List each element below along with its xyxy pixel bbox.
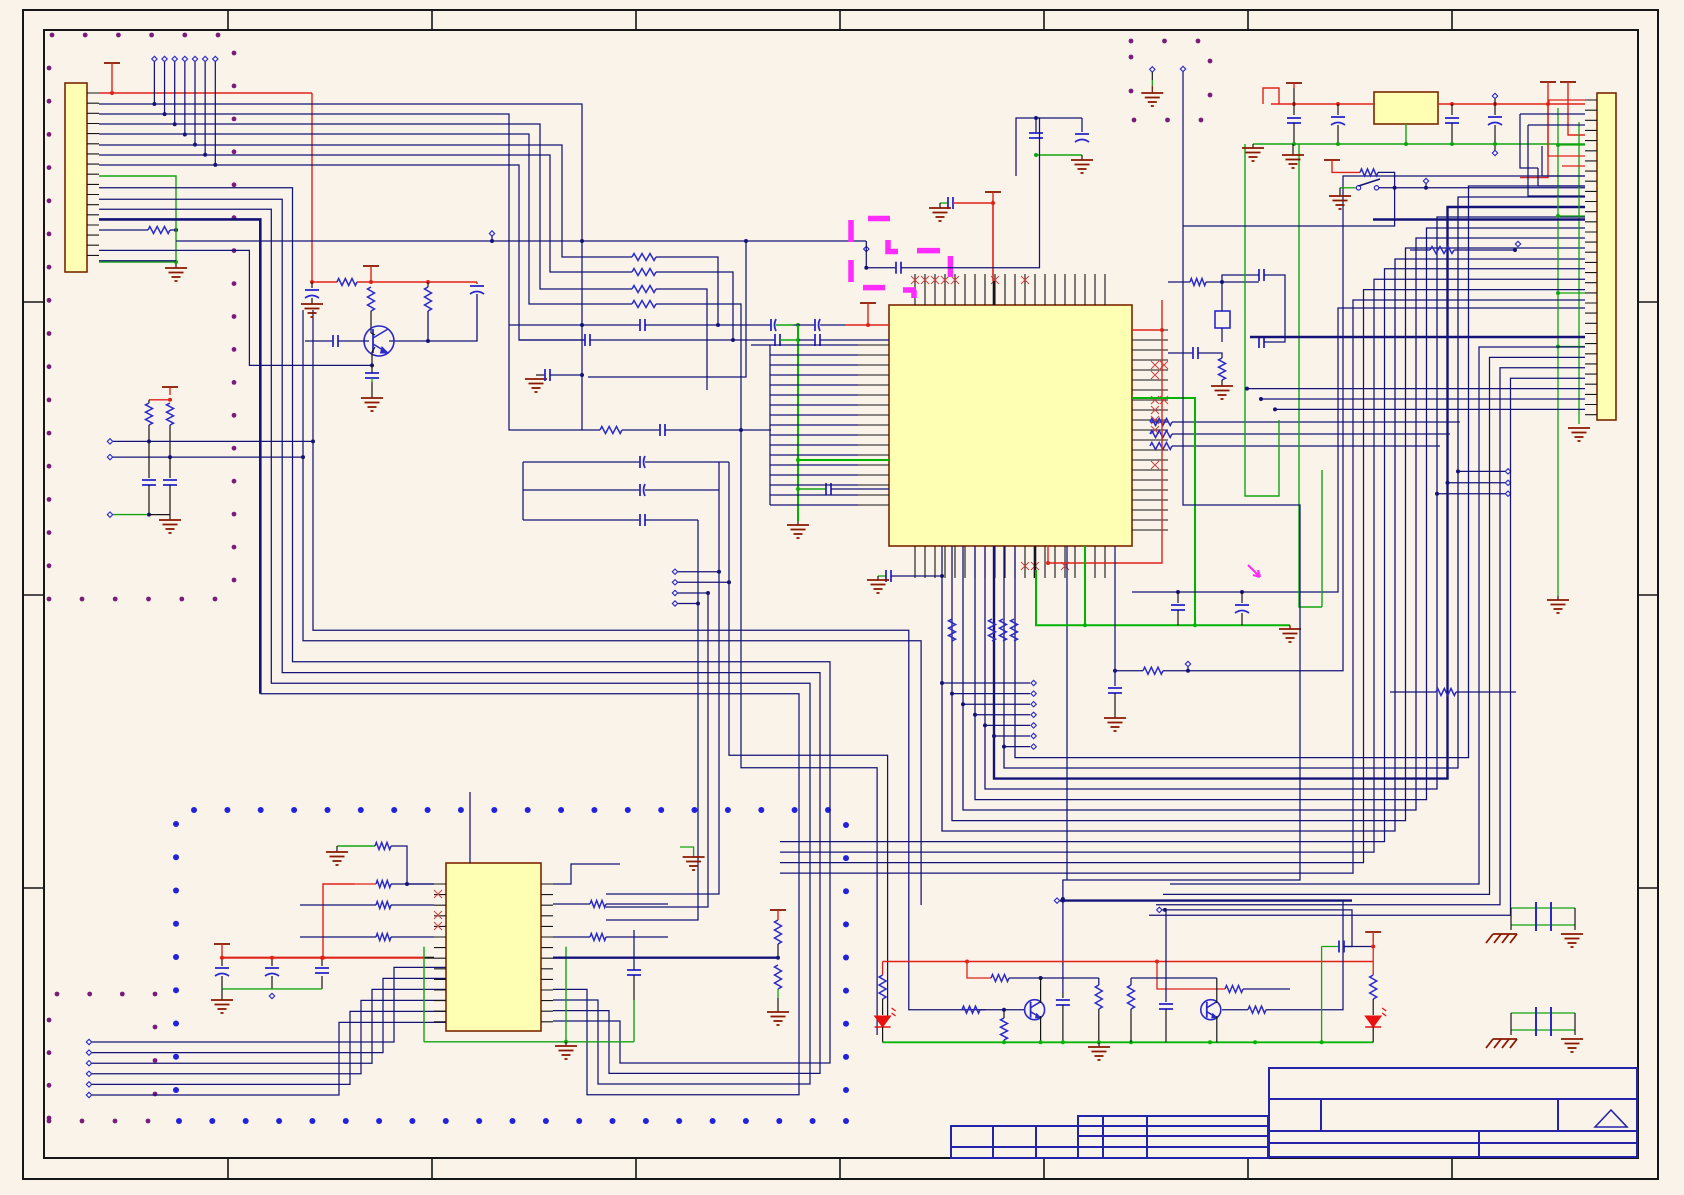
green elbow right of U3 xyxy=(633,1000,635,1042)
red jog below rail xyxy=(1520,104,1548,178)
green stubs into J2 pins xyxy=(1558,144,1585,146)
resistor R2 on J1 pin xyxy=(99,229,148,231)
resistor R6 xyxy=(632,269,656,276)
transistor Q1 xyxy=(364,326,394,356)
cap net row 3 xyxy=(523,461,640,463)
wire J1-15 to Q1 emitter xyxy=(99,250,372,365)
green verticals from power area xyxy=(1245,144,1279,496)
resistor divider pair left xyxy=(162,386,178,388)
LED D2 xyxy=(1365,1016,1381,1027)
LED driver right resistor xyxy=(1372,962,1374,976)
J1 pin stubs xyxy=(87,93,99,255)
switch SW1 net xyxy=(1324,159,1340,161)
wire J1-16 lower net xyxy=(99,260,176,262)
green loop around U1 lower right xyxy=(1036,570,1290,625)
switch ground via green xyxy=(1340,187,1356,189)
red rail to J2 pins xyxy=(1549,103,1585,105)
U1 left pin stubs xyxy=(858,345,889,505)
terminal wire pair with caps xyxy=(107,439,112,444)
no-connect marks U1 top pins xyxy=(911,276,919,284)
resistor left of Q3 xyxy=(1130,978,1132,985)
green terminal wire xyxy=(107,512,112,517)
blue dotted boundary bottom-center xyxy=(173,807,849,1124)
title block middle table xyxy=(1078,1116,1268,1158)
rake ground filter upper xyxy=(1493,933,1517,935)
connector J2 right xyxy=(1597,93,1616,420)
LED driver left resistor xyxy=(882,962,884,976)
ground center xyxy=(787,524,809,526)
resistor into U3 pin 1 xyxy=(376,881,391,888)
bold pin row J2 b xyxy=(1250,336,1585,338)
green vertical to ground mid xyxy=(797,325,799,521)
base resistor Q3 right xyxy=(1222,1009,1248,1011)
green box U3 left pins xyxy=(423,947,425,1042)
bus wire U1 pin to J2 6 xyxy=(994,207,1585,779)
ground left of regulator 2 xyxy=(1292,144,1294,155)
cap net row 5 xyxy=(523,519,640,521)
red wire down to Q1 bias xyxy=(311,93,313,282)
J2 lower short pin rows xyxy=(1247,388,1585,390)
bus wire U1 pin to J2 8 xyxy=(1015,186,1585,758)
power T at coupling cap xyxy=(1365,931,1381,933)
terminal stub row right 1 xyxy=(1505,469,1510,474)
wires U1 left pins from bundle xyxy=(770,345,858,505)
pull resistors on fanout xyxy=(949,619,956,641)
caps trio at bottom-center power xyxy=(221,958,223,966)
ground right of blue region xyxy=(680,847,694,857)
ground left middle xyxy=(169,515,171,520)
coupling cap C7 at Q1 base xyxy=(305,340,333,342)
magenta highlight dashed box xyxy=(851,219,950,299)
vertical bundle center drop 2 xyxy=(606,593,708,907)
bold pin row J2 a xyxy=(1373,218,1585,220)
cap net row 4 xyxy=(523,489,640,491)
ground filter upper xyxy=(1561,933,1583,935)
dual cap filter block upper xyxy=(1511,907,1575,909)
transistor Q2 xyxy=(1025,1000,1045,1020)
vertical bundle center drop 4 xyxy=(729,462,888,1020)
U1 bottom pin stubs xyxy=(915,546,1105,578)
row net 630 to driver 1 xyxy=(313,310,962,1010)
resistor R4 xyxy=(425,287,432,311)
long net from top terminal xyxy=(1180,66,1185,71)
green stub and cap into U1 xyxy=(798,488,826,490)
ground in purple region xyxy=(1150,67,1155,72)
cap and ground under U1 area xyxy=(1114,546,1116,686)
switch sense wire long run xyxy=(1183,188,1395,226)
cap at Q2 xyxy=(1062,993,1064,998)
stub bus second with terminal xyxy=(1157,907,1162,912)
coupling cap in magenta box xyxy=(864,246,869,251)
red net right of U1 xyxy=(1132,329,1162,331)
terminal stub row right 2 xyxy=(1505,480,1510,485)
wire J1-12 bus to U3 xyxy=(99,209,810,1084)
row net 641 to driver 2 xyxy=(303,310,921,905)
terminal stub on mid net xyxy=(489,231,494,236)
resistor nets right of U1 2 xyxy=(1150,431,1172,438)
ground at return bus xyxy=(1098,1042,1100,1047)
power T pair above J2 xyxy=(1540,81,1556,83)
resistor with terminal right side xyxy=(1410,249,1430,251)
wire J1-6 data bus xyxy=(99,145,632,257)
decoupling cap C5 xyxy=(311,282,313,288)
resistor nets right of U1 1 xyxy=(1150,421,1168,423)
ground below U3 xyxy=(565,1042,567,1046)
green right vertical U3 xyxy=(565,947,567,1042)
ground left of regulator 1 xyxy=(1252,144,1254,148)
bus rows to J2 staircase xyxy=(780,269,1585,842)
red stub into U1 xyxy=(845,324,889,326)
base divider resistor Q3 xyxy=(1131,977,1217,979)
divider resistor upper xyxy=(775,920,782,944)
U1 right pin stubs xyxy=(1132,330,1168,530)
series caps to U1 pin row 1 xyxy=(770,319,772,331)
wire U1 pin down to driver region xyxy=(1066,546,1068,880)
vertical bundle center drop 3 xyxy=(606,462,719,894)
cap right of U3 xyxy=(627,969,641,971)
U3 right nets resistor b xyxy=(553,936,590,938)
ground resistor net above U3 xyxy=(337,845,375,847)
resistor into U3 pin 3 xyxy=(355,904,376,906)
green bottom bus U3 xyxy=(424,1041,634,1043)
left pin feeder verticals xyxy=(769,345,771,505)
IC U3 bottom xyxy=(446,863,541,1031)
resistor R5 xyxy=(632,254,656,261)
terminal wires bottom-left with staircase to U3 xyxy=(86,1039,91,1044)
resistor R3 collector xyxy=(368,287,375,311)
small cap with ground mid xyxy=(536,374,545,376)
green box around J1 lower pins xyxy=(99,176,176,186)
branch to Q3 xyxy=(1157,962,1178,990)
red supply bus bottom-right xyxy=(883,961,1374,963)
U3 right nets 1 xyxy=(553,864,620,884)
resistor nets right of U1 3 xyxy=(1150,443,1172,450)
jumper stub at regulator input xyxy=(1263,88,1279,104)
input cap C20 xyxy=(1293,104,1295,115)
LED D1 xyxy=(875,1016,891,1027)
cap CL2 xyxy=(169,457,171,478)
no-connect marks U1 right pins xyxy=(1151,361,1159,369)
regulator ground lead xyxy=(1405,124,1407,144)
IC U1 main processor xyxy=(889,305,1132,546)
ground caps trio xyxy=(221,989,223,1000)
dual cap filter block lower xyxy=(1511,1012,1575,1014)
emitter cap C8 xyxy=(365,372,379,374)
bias rail red Q1 xyxy=(312,281,337,283)
ground at J1 lower xyxy=(175,262,177,268)
green return bus bottom-right xyxy=(883,1041,1374,1043)
terminal stub row right 3 xyxy=(1505,491,1510,496)
connector J1 left xyxy=(65,83,87,272)
wire J1-3 data bus xyxy=(99,114,509,325)
test terminals on fanout xyxy=(942,682,1030,684)
ground under C5 xyxy=(301,303,323,305)
title block revision triangle xyxy=(1595,1110,1627,1127)
cap and ground below U1 left xyxy=(878,575,886,577)
resistor R8 xyxy=(632,301,656,308)
bus wire U1 pin to J2 5 xyxy=(985,217,1585,789)
U3 right pin stubs xyxy=(541,884,553,1022)
cap pair on mid rail xyxy=(1132,308,1585,592)
capacitor C6 xyxy=(476,282,478,284)
cap res ground cluster right of U1 xyxy=(1168,352,1193,354)
wire into U3 top pin xyxy=(469,792,471,863)
resistor at Q2 right xyxy=(1098,978,1100,985)
title block left table xyxy=(951,1126,1078,1158)
red bus into U3 xyxy=(220,957,424,959)
power T at caps trio xyxy=(214,943,230,945)
bus wire U1 pin to J2 2 xyxy=(952,248,1585,821)
output cap C22 xyxy=(1451,104,1453,115)
resistor net below U1 right xyxy=(1115,670,1143,672)
terminal stub near switch xyxy=(1423,178,1428,183)
power symbol VCC top-left xyxy=(104,62,120,64)
title block main table xyxy=(1269,1068,1637,1157)
ground at green bus end xyxy=(1289,625,1291,629)
no-connect marks U1 bottom pins xyxy=(1021,562,1029,570)
divider resistor lower xyxy=(775,965,782,989)
rake ground filter lower xyxy=(1493,1038,1517,1040)
cap row net 1 xyxy=(509,324,640,326)
terminal stubs center xyxy=(672,569,677,574)
branch to Q2 collector xyxy=(967,962,991,979)
mid net with resistor and cap xyxy=(540,429,600,431)
red stubs into J2 pins xyxy=(1548,104,1585,156)
power net red vertical center xyxy=(985,191,1001,193)
transistor Q3 xyxy=(1201,1000,1221,1020)
wire J1-14 mid net xyxy=(176,240,866,242)
ground under divider xyxy=(767,1011,789,1013)
wire J1-2 data bus xyxy=(99,104,582,430)
magenta pointer arrow xyxy=(1248,565,1260,577)
wire J1-5 data bus xyxy=(99,134,632,304)
bus wire U1 pin to J2 1 xyxy=(942,259,1585,831)
long feed to LED driver 2 xyxy=(1062,899,1064,993)
no-connect marks U3 left pins xyxy=(434,890,442,898)
decoupling caps above U1 xyxy=(1035,118,1037,133)
wire J1-10 bus to U3 xyxy=(99,188,830,1063)
base resistor Q2 xyxy=(962,1009,986,1011)
green link caps trio xyxy=(222,988,322,990)
purple dotted boundary bottom-left xyxy=(47,992,158,1124)
ground under C8 xyxy=(361,397,383,399)
J2 lower pin bundle wires xyxy=(1170,347,1585,884)
bus wire U1 pin to J2 3 xyxy=(963,238,1585,810)
voltage regulator U2 xyxy=(1374,92,1438,124)
crystal circuit X1 xyxy=(1168,281,1190,283)
resistor R7 xyxy=(632,286,656,293)
power wire VCC from J1 pin 1 xyxy=(99,92,312,94)
terminal below C23 xyxy=(1492,150,1497,155)
vertical bundle center drop 1 xyxy=(606,520,698,920)
purple dotted boundary top-right xyxy=(1129,39,1213,123)
resistor into U3 pin 6 xyxy=(355,936,376,938)
bold bus wire J1-13 to U3 xyxy=(99,219,260,693)
divider power symbol xyxy=(770,909,786,911)
green output bus xyxy=(1253,143,1549,145)
green wire into U1 left xyxy=(798,459,889,461)
red feed wire to U3 xyxy=(323,884,355,958)
Q1 emitter net xyxy=(372,347,375,365)
green bus to J2 xyxy=(1549,143,1585,145)
power symbol at regulator input xyxy=(1286,82,1302,84)
terminal below middle cap xyxy=(269,993,274,998)
ground filter lower xyxy=(1561,1038,1583,1040)
cap coupling at bus right xyxy=(1322,946,1339,948)
input cap C21 xyxy=(1337,104,1339,115)
test point drop wires with terminals xyxy=(152,56,157,61)
output cap C23 xyxy=(1492,93,1497,98)
bus wire U1 pin to J2 7 xyxy=(1004,197,1585,768)
vertical bundle center drop 5 xyxy=(741,430,877,1035)
cap row net 2 xyxy=(519,339,585,341)
branch down to center xyxy=(588,241,746,377)
power symbol Q1 collector xyxy=(363,265,379,267)
resistor on long net mid right xyxy=(1390,691,1436,693)
U1 top pin stubs xyxy=(915,274,1105,305)
cap CL1 xyxy=(148,441,150,478)
mid cap at Q3 xyxy=(1165,998,1167,1002)
bold bus from U3 to divider xyxy=(553,957,778,959)
J2 top pin wires to power circuit xyxy=(1549,100,1585,104)
J2 pin stubs xyxy=(1585,100,1597,415)
cap with ground left of power net xyxy=(940,202,948,204)
wire J1-11 bus to U3 xyxy=(99,199,820,1073)
ground pair under J2 xyxy=(1557,108,1559,596)
wire J1-7 data bus xyxy=(99,155,632,272)
ground under caps above U1 xyxy=(1081,155,1083,160)
bold stub bus with terminal xyxy=(1054,898,1059,903)
wire J1-8 data bus xyxy=(99,165,585,340)
base divider resistor Q2 xyxy=(1003,1010,1005,1018)
wire J1-4 data bus xyxy=(99,124,632,289)
regulator rail red xyxy=(1271,103,1374,105)
U3 right nets resistor a xyxy=(553,903,590,905)
U3 left pin stubs xyxy=(434,884,446,1022)
green link under caps xyxy=(1036,154,1082,156)
switch SW1 contact xyxy=(1356,186,1360,190)
power symbol near U1 top-left xyxy=(860,302,876,304)
purple dotted boundary top-left xyxy=(47,33,237,602)
U1 heavy supply pins xyxy=(994,281,1035,578)
bus wire U1 pin to J2 4 xyxy=(975,228,1585,800)
